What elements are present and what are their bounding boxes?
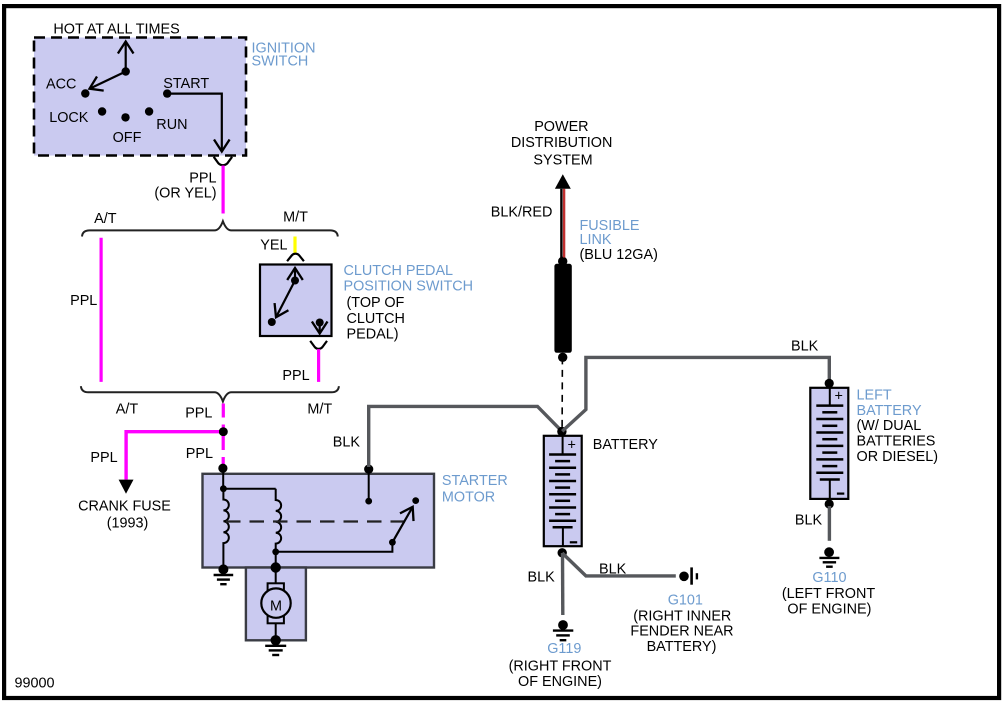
left battery plates	[816, 406, 843, 480]
ignition wiper arm and pivot dot	[90, 72, 126, 89]
wire BLK battery to G119	[561, 553, 565, 615]
starter switch arm arrow	[392, 507, 412, 543]
svg-text:BLK: BLK	[599, 561, 627, 577]
svg-text:BATTERY: BATTERY	[593, 437, 658, 453]
svg-text:SWITCH: SWITCH	[252, 54, 309, 70]
svg-text:SYSTEM: SYSTEM	[533, 152, 592, 168]
svg-text:POWER: POWER	[534, 119, 588, 135]
svg-text:YEL: YEL	[260, 238, 287, 254]
svg-text:BATTERY): BATTERY)	[647, 639, 717, 655]
solenoid pull-in coil	[276, 489, 281, 568]
starter switch contact (fixed)	[412, 497, 419, 504]
connector at clutch switch output	[310, 341, 327, 349]
motor housing box	[246, 568, 306, 641]
svg-text:+: +	[835, 389, 843, 405]
svg-text:POSITION SWITCH: POSITION SWITCH	[344, 278, 474, 294]
svg-text:A/T: A/T	[94, 211, 117, 227]
svg-text:BLK: BLK	[333, 435, 361, 451]
battery plus terminal stem	[562, 436, 564, 455]
battery feed wire into box	[368, 469, 370, 501]
svg-text:M/T: M/T	[283, 210, 308, 226]
wire BLK battery to left battery	[562, 357, 829, 431]
dashed lead battery to fusible link	[561, 357, 563, 431]
left battery positive node	[825, 379, 834, 388]
wire BLK starter to battery positive	[369, 406, 562, 467]
ignition switch box	[34, 38, 246, 156]
motor armature circle	[261, 588, 290, 617]
svg-text:HOT AT ALL TIMES: HOT AT ALL TIMES	[53, 22, 179, 38]
motor feed wire	[275, 568, 277, 585]
svg-text:(TOP OF: (TOP OF	[347, 295, 405, 311]
clutch output contact and arrow	[316, 319, 324, 327]
motor feed node	[271, 562, 281, 572]
ignition feed arrow (to HOT)	[125, 42, 127, 72]
svg-text:CLUTCH: CLUTCH	[347, 311, 405, 327]
svg-text:M/T: M/T	[307, 401, 332, 417]
left battery negative node	[825, 499, 834, 508]
svg-text:(RIGHT FRONT: (RIGHT FRONT	[509, 658, 612, 674]
wire PPL (OR YEL)	[222, 166, 225, 214]
svg-text:RUN: RUN	[156, 117, 187, 133]
clutch switch input arrow	[294, 268, 296, 281]
wire START output	[167, 94, 222, 152]
starter case ground	[214, 575, 234, 584]
brace (split A/T and M/T)	[82, 221, 338, 236]
svg-text:(BLU 12GA): (BLU 12GA)	[580, 247, 658, 263]
svg-text:DISTRIBUTION: DISTRIBUTION	[511, 135, 613, 151]
motor ground node	[271, 635, 281, 645]
svg-text:PPL: PPL	[70, 293, 97, 309]
wire PPL to crank fuse	[126, 432, 219, 480]
wire YEL	[293, 237, 296, 254]
motor brush (top)	[268, 583, 284, 594]
svg-text:99000: 99000	[15, 676, 55, 692]
svg-text:PPL: PPL	[185, 405, 212, 421]
terminal OFF	[121, 113, 129, 121]
clutch switch wiper and pivot dot	[276, 281, 295, 318]
pull-in coil tap node	[272, 548, 279, 555]
svg-text:BLK/RED: BLK/RED	[491, 205, 553, 221]
left battery plus stem	[829, 388, 831, 406]
battery plates	[549, 455, 576, 528]
svg-text:CRANK FUSE: CRANK FUSE	[78, 498, 171, 514]
connector at ignition output	[214, 157, 232, 165]
wire to pull-in winding	[223, 488, 275, 490]
fusible link body	[554, 264, 571, 353]
node at starter solenoid terminal	[218, 464, 227, 473]
svg-text:OFF: OFF	[113, 130, 142, 146]
svg-text:A/T: A/T	[116, 401, 139, 417]
terminal LOCK	[98, 107, 106, 115]
motor ground	[265, 646, 286, 655]
svg-text:OF ENGINE): OF ENGINE)	[787, 601, 871, 617]
svg-text:BATTERY: BATTERY	[857, 403, 922, 419]
wire BLK/RED (black strand)	[560, 189, 562, 258]
fusible link upper node	[558, 257, 567, 266]
wire BLK/RED (red strand)	[563, 189, 565, 258]
left battery minus stem	[829, 480, 831, 499]
arrow to power distribution system	[555, 174, 571, 189]
fusible link lower node	[558, 353, 567, 362]
battery feed contact node	[365, 498, 372, 505]
starter switch contact (moving)	[389, 539, 396, 546]
battery feed terminal node	[364, 465, 373, 474]
battery positive node	[557, 427, 566, 436]
wire PPL below clutch switch	[317, 349, 320, 382]
terminal RUN	[145, 107, 153, 115]
connector at clutch switch input	[287, 254, 304, 262]
svg-text:G110: G110	[812, 570, 846, 586]
brace (merge A/T and M/T)	[81, 386, 339, 401]
wire BLK battery to G101	[562, 553, 676, 576]
svg-text:BLK: BLK	[791, 338, 819, 354]
wire BLK left battery to ground	[828, 506, 831, 541]
svg-text:OR DIESEL): OR DIESEL)	[857, 449, 939, 465]
solenoid junction node	[220, 485, 227, 492]
ground G119	[553, 620, 573, 640]
clutch pedal position switch box	[260, 265, 332, 337]
svg-text:LOCK: LOCK	[49, 110, 89, 126]
crank fuse arrow	[119, 480, 134, 494]
wire coil tap to contact	[276, 545, 393, 552]
svg-text:(1993): (1993)	[107, 516, 149, 532]
svg-text:MOTOR: MOTOR	[442, 490, 495, 506]
svg-text:(W/ DUAL: (W/ DUAL	[857, 418, 922, 434]
svg-text:FENDER NEAR: FENDER NEAR	[630, 624, 733, 640]
clutch contact (lower-left)	[268, 318, 276, 326]
svg-text:LEFT: LEFT	[857, 387, 892, 403]
svg-text:(RIGHT INNER: (RIGHT INNER	[633, 608, 731, 624]
svg-text:G119: G119	[547, 641, 581, 657]
svg-text:STARTER: STARTER	[442, 473, 508, 489]
solenoid plunger dashed link	[226, 520, 408, 522]
svg-text:PPL: PPL	[90, 450, 117, 466]
svg-text:BLK: BLK	[527, 570, 555, 586]
terminal ACC	[81, 89, 89, 97]
ground G101	[679, 567, 697, 584]
svg-text:G101: G101	[668, 592, 703, 608]
battery minus terminal stem	[562, 527, 564, 546]
battery negative node	[558, 548, 567, 557]
svg-text:M: M	[270, 599, 282, 615]
svg-text:PPL: PPL	[186, 446, 213, 462]
motor brush (bottom)	[268, 613, 284, 624]
svg-text:OF ENGINE): OF ENGINE)	[518, 674, 602, 690]
svg-text:(LEFT FRONT: (LEFT FRONT	[782, 586, 875, 602]
terminal START	[163, 89, 171, 97]
svg-text:ACC: ACC	[46, 77, 76, 93]
starter motor box	[203, 474, 435, 568]
dashed PPL wire from brace	[222, 404, 225, 429]
motor ground wire	[275, 623, 277, 640]
solenoid feed wire	[222, 468, 224, 489]
svg-text:CLUTCH PEDAL: CLUTCH PEDAL	[344, 263, 454, 279]
solenoid hold-in coil	[223, 489, 228, 568]
wire PPL A/T branch	[99, 238, 102, 382]
svg-text:BATTERIES: BATTERIES	[857, 434, 936, 450]
ground G110	[819, 547, 839, 566]
svg-text:PPL: PPL	[189, 170, 216, 186]
left battery box	[810, 388, 848, 499]
svg-text:PPL: PPL	[282, 368, 309, 384]
hold-in coil ground node	[218, 564, 228, 574]
svg-text:START: START	[163, 76, 209, 92]
svg-text:LINK: LINK	[580, 232, 612, 248]
dashed PPL wire to starter	[222, 436, 225, 464]
left battery minus sign	[837, 493, 844, 495]
svg-text:(OR YEL): (OR YEL)	[154, 186, 216, 202]
svg-text:BLK: BLK	[795, 512, 823, 528]
battery box	[544, 436, 582, 546]
junction node	[219, 427, 228, 436]
svg-text:PEDAL): PEDAL)	[347, 327, 399, 343]
battery minus sign	[570, 541, 577, 543]
svg-text:+: +	[568, 438, 576, 454]
